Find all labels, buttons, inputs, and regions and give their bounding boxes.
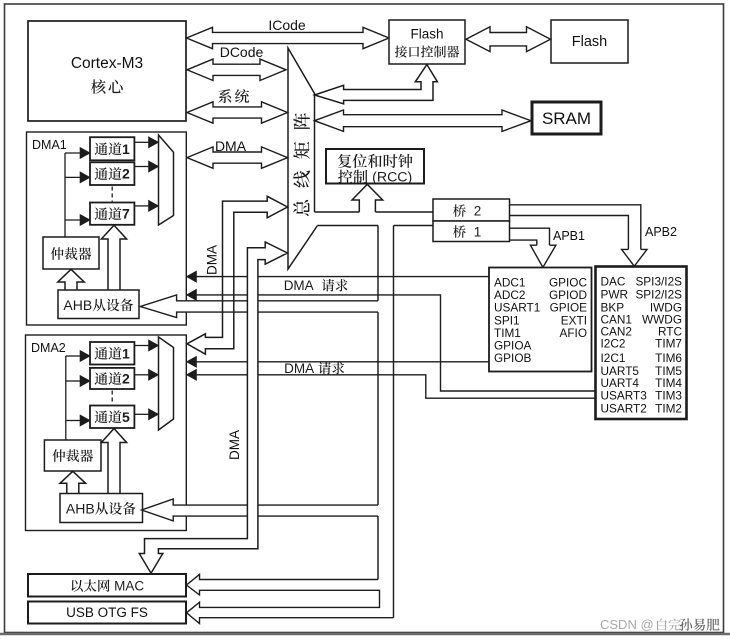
svg-text:DAC: DAC (601, 275, 626, 289)
svg-text:DMA: DMA (215, 138, 247, 154)
svg-text:SRAM: SRAM (542, 109, 591, 128)
svg-text:1: 1 (474, 224, 482, 239)
svg-text:Flash: Flash (410, 27, 443, 42)
svg-text:AHB: AHB (66, 500, 95, 516)
svg-text:I2C2: I2C2 (601, 337, 626, 351)
svg-text:DMA: DMA (284, 361, 314, 376)
svg-text:I2C1: I2C1 (601, 351, 626, 365)
svg-text:ICode: ICode (268, 17, 306, 33)
svg-text:TIM6: TIM6 (655, 351, 682, 365)
svg-text:GPIOB: GPIOB (494, 351, 531, 365)
svg-text:DMA: DMA (284, 278, 314, 293)
svg-text:1: 1 (122, 345, 130, 361)
svg-text:AFIO: AFIO (559, 326, 587, 340)
svg-text:Cortex-M3: Cortex-M3 (71, 55, 143, 72)
svg-text:Flash: Flash (572, 34, 607, 50)
svg-text:DMA2: DMA2 (31, 341, 66, 355)
svg-text:APB1: APB1 (553, 229, 585, 243)
svg-text:APB2: APB2 (645, 225, 677, 239)
svg-text:TIM7: TIM7 (655, 337, 682, 351)
svg-text:DMA: DMA (227, 430, 242, 460)
svg-text:DMA: DMA (205, 245, 220, 275)
svg-text:5: 5 (122, 409, 130, 425)
svg-text:7: 7 (122, 206, 130, 222)
svg-text:MAC: MAC (114, 578, 144, 593)
svg-text:1: 1 (122, 141, 130, 157)
svg-text:USART2: USART2 (601, 401, 647, 415)
svg-text:DCode: DCode (220, 44, 264, 60)
svg-text:USB OTG FS: USB OTG FS (66, 605, 148, 620)
svg-text:SPI3/I2S: SPI3/I2S (635, 275, 682, 289)
svg-text:2: 2 (474, 203, 482, 218)
svg-text:2: 2 (122, 166, 130, 182)
svg-text:DMA1: DMA1 (32, 138, 67, 152)
svg-text:TIM2: TIM2 (655, 401, 682, 415)
svg-text:2: 2 (122, 371, 130, 387)
svg-text:(RCC): (RCC) (372, 170, 412, 186)
svg-text:CSDN @: CSDN @ (600, 617, 654, 632)
svg-text:AHB: AHB (63, 297, 92, 313)
